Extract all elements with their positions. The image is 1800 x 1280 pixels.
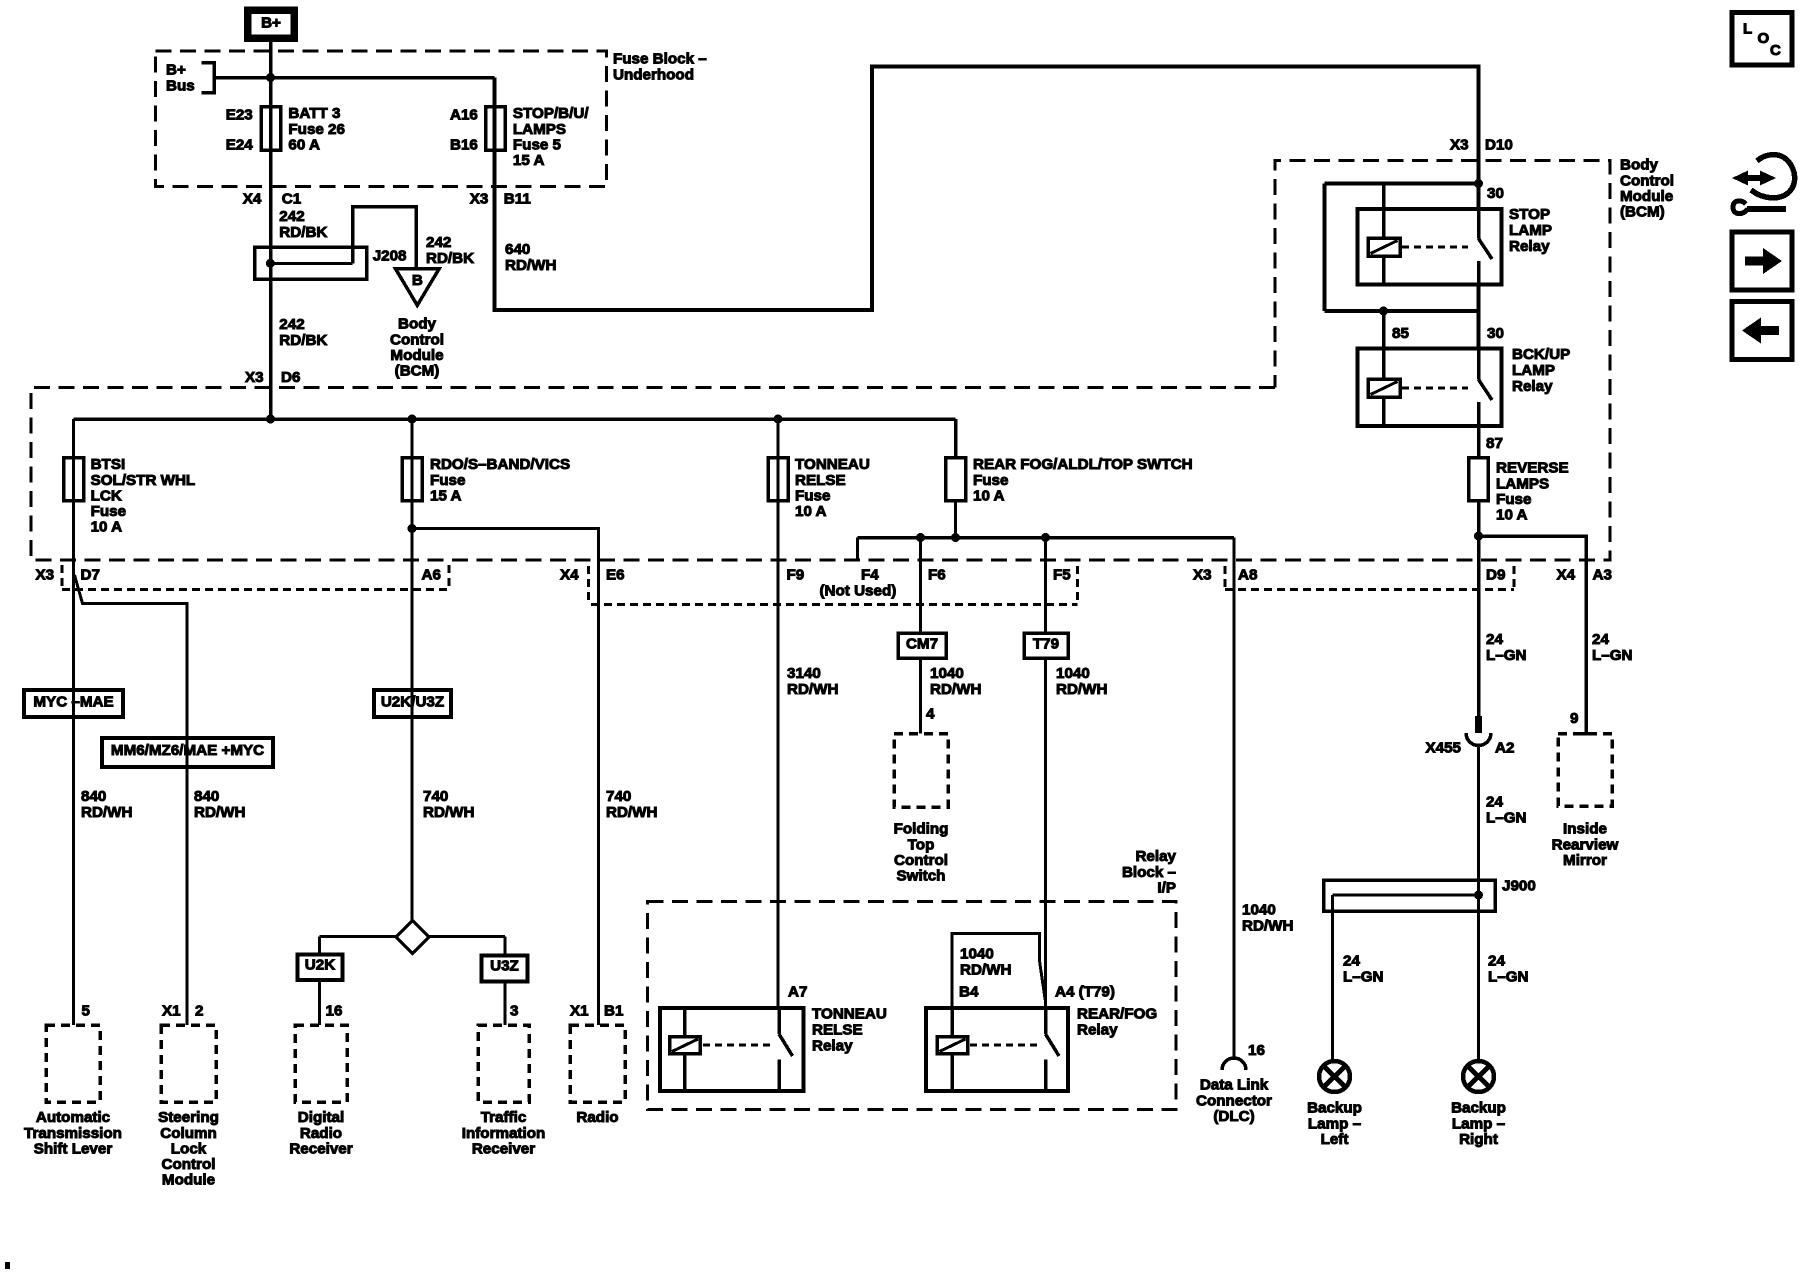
svg-text:Steering: Steering (158, 1109, 219, 1126)
svg-text:Control: Control (894, 852, 948, 869)
svg-text:242: 242 (279, 208, 304, 225)
svg-text:Bus: Bus (166, 77, 195, 94)
svg-text:Fuse Block –: Fuse Block – (613, 51, 707, 68)
svg-text:30: 30 (1487, 185, 1504, 202)
svg-text:L–GN: L–GN (1488, 968, 1529, 985)
svg-text:Traffic: Traffic (481, 1109, 527, 1126)
svg-text:Radio: Radio (576, 1109, 618, 1126)
svg-text:24: 24 (1486, 631, 1503, 648)
svg-text:F6: F6 (928, 567, 946, 584)
svg-text:REAR/FOG: REAR/FOG (1077, 1006, 1157, 1023)
svg-text:(BCM): (BCM) (395, 363, 440, 380)
svg-text:(BCM): (BCM) (1620, 204, 1665, 221)
svg-text:B1: B1 (604, 1003, 624, 1020)
svg-text:X4: X4 (1557, 567, 1576, 584)
svg-text:X3: X3 (245, 369, 264, 386)
svg-text:15 A: 15 A (513, 152, 545, 169)
svg-text:A3: A3 (1593, 567, 1612, 584)
svg-text:RELSE: RELSE (795, 472, 846, 489)
svg-text:24: 24 (1488, 953, 1505, 970)
svg-text:Lock: Lock (171, 1140, 207, 1157)
svg-text:C1: C1 (282, 191, 302, 208)
svg-text:BTSI: BTSI (91, 456, 126, 473)
svg-text:O: O (1758, 30, 1770, 47)
svg-text:Fuse: Fuse (973, 472, 1008, 489)
svg-text:TONNEAU: TONNEAU (812, 1006, 887, 1023)
svg-text:Relay: Relay (1077, 1022, 1118, 1039)
svg-text:X4: X4 (243, 191, 262, 208)
svg-text:16: 16 (326, 1003, 343, 1020)
svg-text:RD/WH: RD/WH (606, 804, 657, 821)
svg-text:Inside: Inside (1563, 821, 1607, 838)
svg-text:A16: A16 (450, 107, 478, 124)
svg-text:242: 242 (426, 234, 451, 251)
svg-text:L: L (1743, 21, 1752, 38)
svg-text:2: 2 (195, 1003, 203, 1020)
svg-text:3140: 3140 (787, 665, 821, 682)
svg-text:Relay: Relay (1509, 238, 1550, 255)
svg-text:D7: D7 (81, 567, 100, 584)
svg-text:TONNEAU: TONNEAU (795, 456, 870, 473)
svg-text:D10: D10 (1485, 137, 1513, 154)
svg-text:STOP/B/U/: STOP/B/U/ (513, 105, 589, 122)
svg-text:Body: Body (1620, 157, 1659, 174)
svg-text:Transmission: Transmission (24, 1125, 122, 1142)
svg-text:L–GN: L–GN (1592, 647, 1633, 664)
svg-text:SOL/STR WHL: SOL/STR WHL (91, 472, 196, 489)
svg-text:Rearview: Rearview (1552, 836, 1619, 853)
svg-text:(DLC): (DLC) (1213, 1108, 1254, 1125)
svg-text:C: C (1770, 42, 1781, 59)
svg-text:X3: X3 (470, 191, 489, 208)
svg-text:87: 87 (1486, 435, 1503, 452)
svg-text:CM7: CM7 (906, 636, 938, 653)
svg-text:Top: Top (908, 836, 935, 853)
svg-text:Receiver: Receiver (289, 1140, 352, 1157)
svg-text:BATT 3: BATT 3 (288, 105, 340, 122)
svg-text:Right: Right (1459, 1131, 1498, 1148)
svg-text:LCK: LCK (91, 487, 122, 504)
svg-text:640: 640 (505, 241, 530, 258)
svg-text:RD/WH: RD/WH (1242, 917, 1293, 934)
svg-text:REAR FOG/ALDL/TOP SWTCH: REAR FOG/ALDL/TOP SWTCH (973, 456, 1193, 473)
svg-text:Digital: Digital (298, 1109, 344, 1126)
svg-text:D6: D6 (281, 369, 300, 386)
svg-text:740: 740 (423, 788, 448, 805)
svg-text:Switch: Switch (897, 868, 946, 885)
svg-text:85: 85 (1392, 325, 1409, 342)
svg-text:RD/WH: RD/WH (194, 804, 245, 821)
svg-text:BCK/UP: BCK/UP (1512, 346, 1570, 363)
svg-text:RD/WH: RD/WH (930, 681, 981, 698)
svg-text:B11: B11 (504, 191, 532, 208)
svg-text:X1: X1 (570, 1003, 589, 1020)
svg-text:RD/BK: RD/BK (426, 250, 474, 267)
svg-text:1040: 1040 (960, 946, 994, 963)
svg-text:840: 840 (194, 788, 219, 805)
svg-text:840: 840 (81, 788, 106, 805)
svg-text:242: 242 (279, 316, 304, 333)
svg-text:F4: F4 (861, 567, 879, 584)
svg-text:STOP: STOP (1509, 206, 1550, 223)
svg-text:E6: E6 (606, 567, 625, 584)
svg-text:Module: Module (162, 1172, 215, 1189)
svg-text:X4: X4 (560, 567, 579, 584)
svg-text:(Not Used): (Not Used) (820, 583, 897, 600)
svg-text:B: B (412, 272, 423, 289)
svg-text:10 A: 10 A (91, 519, 123, 536)
svg-text:F5: F5 (1053, 567, 1071, 584)
svg-text:10 A: 10 A (1496, 507, 1528, 524)
svg-text:A8: A8 (1238, 567, 1257, 584)
svg-text:E24: E24 (226, 137, 254, 154)
svg-text:Folding: Folding (894, 821, 949, 838)
svg-text:30: 30 (1487, 325, 1504, 342)
svg-text:X1: X1 (162, 1003, 181, 1020)
svg-text:Lamp –: Lamp – (1308, 1115, 1361, 1132)
svg-text:A2: A2 (1495, 740, 1514, 757)
svg-text:10 A: 10 A (795, 503, 827, 520)
svg-text:Mirror: Mirror (1563, 852, 1607, 869)
svg-text:A4 (T79): A4 (T79) (1055, 984, 1115, 1001)
svg-text:X455: X455 (1426, 740, 1462, 757)
svg-text:Backup: Backup (1451, 1100, 1506, 1117)
svg-text:16: 16 (1248, 1042, 1265, 1059)
svg-text:D9: D9 (1486, 567, 1505, 584)
svg-text:Fuse: Fuse (91, 503, 126, 520)
svg-text:Control: Control (390, 331, 444, 348)
svg-text:RD/WH: RD/WH (505, 257, 556, 274)
svg-text:B16: B16 (450, 137, 478, 154)
svg-text:Relay: Relay (1135, 848, 1176, 865)
svg-text:MM6/MZ6/MAE +MYC: MM6/MZ6/MAE +MYC (111, 742, 264, 759)
svg-text:RD/WH: RD/WH (1056, 681, 1107, 698)
svg-text:F9: F9 (787, 567, 805, 584)
svg-text:REVERSE: REVERSE (1496, 460, 1569, 477)
svg-text:Control: Control (162, 1156, 216, 1173)
svg-text:740: 740 (606, 788, 631, 805)
svg-text:X3: X3 (1450, 137, 1469, 154)
svg-text:Data Link: Data Link (1200, 1077, 1269, 1094)
svg-text:Relay: Relay (1512, 378, 1553, 395)
svg-text:A7: A7 (788, 984, 807, 1001)
svg-text:Fuse: Fuse (795, 487, 830, 504)
svg-text:Information: Information (462, 1125, 546, 1142)
svg-text:Fuse 26: Fuse 26 (288, 121, 345, 138)
svg-text:Control: Control (1620, 172, 1674, 189)
svg-text:L–GN: L–GN (1343, 968, 1384, 985)
svg-text:Relay: Relay (812, 1038, 853, 1055)
svg-text:4: 4 (926, 706, 935, 723)
svg-text:Fuse 5: Fuse 5 (513, 136, 562, 153)
svg-text:Receiver: Receiver (472, 1140, 535, 1157)
svg-text:T79: T79 (1033, 636, 1059, 653)
svg-text:Module: Module (390, 347, 443, 364)
svg-text:RD/WH: RD/WH (81, 804, 132, 821)
svg-text:U2K/U3Z: U2K/U3Z (381, 694, 444, 711)
svg-text:LAMP: LAMP (1509, 222, 1552, 239)
svg-text:24: 24 (1343, 953, 1360, 970)
svg-text:1040: 1040 (1242, 902, 1276, 919)
svg-text:Fuse: Fuse (430, 472, 465, 489)
svg-text:RD/BK: RD/BK (279, 332, 327, 349)
svg-text:Shift Lever: Shift Lever (34, 1140, 113, 1157)
svg-text:B+: B+ (261, 15, 281, 32)
svg-text:L–GN: L–GN (1486, 647, 1527, 664)
svg-text:MYC –MAE: MYC –MAE (33, 694, 113, 711)
svg-text:Left: Left (1321, 1131, 1349, 1148)
svg-text:I/P: I/P (1157, 879, 1176, 896)
svg-text:Connector: Connector (1196, 1092, 1272, 1109)
svg-text:Radio: Radio (300, 1125, 342, 1142)
svg-text:RD/WH: RD/WH (423, 804, 474, 821)
svg-text:L–GN: L–GN (1486, 809, 1527, 826)
svg-text:Module: Module (1620, 188, 1673, 205)
svg-text:Fuse: Fuse (1496, 491, 1531, 508)
svg-text:LAMPS: LAMPS (1496, 475, 1549, 492)
svg-text:U3Z: U3Z (490, 958, 519, 975)
svg-text:X3: X3 (36, 567, 55, 584)
svg-text:RD/WH: RD/WH (787, 681, 838, 698)
svg-text:Block –: Block – (1122, 864, 1176, 881)
svg-text:RELSE: RELSE (812, 1022, 863, 1039)
svg-text:9: 9 (1570, 710, 1578, 727)
svg-text:Backup: Backup (1307, 1100, 1362, 1117)
svg-text:5: 5 (82, 1003, 91, 1020)
svg-text:U2K: U2K (305, 957, 335, 974)
svg-text:LAMP: LAMP (1512, 362, 1555, 379)
svg-text:3: 3 (510, 1003, 518, 1020)
svg-text:B4: B4 (959, 984, 979, 1001)
svg-text:Automatic: Automatic (36, 1109, 110, 1126)
svg-text:1040: 1040 (1056, 665, 1090, 682)
svg-text:E23: E23 (226, 107, 253, 124)
svg-text:A6: A6 (422, 567, 441, 584)
svg-text:15 A: 15 A (430, 487, 462, 504)
svg-text:X3: X3 (1193, 567, 1212, 584)
svg-text:J208: J208 (373, 248, 407, 265)
svg-text:Body: Body (398, 316, 437, 333)
svg-text:1040: 1040 (930, 665, 964, 682)
svg-text:24: 24 (1486, 794, 1503, 811)
svg-text:RD/BK: RD/BK (279, 224, 327, 241)
svg-text:Column: Column (160, 1125, 217, 1142)
svg-text:LAMPS: LAMPS (513, 121, 566, 138)
svg-text:RD/WH: RD/WH (960, 961, 1011, 978)
svg-text:10 A: 10 A (973, 487, 1005, 504)
svg-text:Lamp –: Lamp – (1452, 1115, 1505, 1132)
svg-text:J900: J900 (1502, 878, 1536, 895)
svg-text:24: 24 (1592, 631, 1609, 648)
svg-text:60 A: 60 A (288, 136, 320, 153)
svg-text:RDO/S–BAND/VICS: RDO/S–BAND/VICS (430, 456, 570, 473)
svg-text:B+: B+ (166, 62, 186, 79)
svg-text:Underhood: Underhood (613, 66, 694, 83)
